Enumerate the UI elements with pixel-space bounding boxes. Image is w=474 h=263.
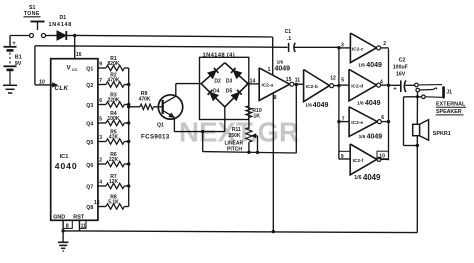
- resistor R2: [98, 72, 129, 87]
- svg-text:CLK: CLK: [55, 85, 69, 92]
- svg-text:Q2: Q2: [86, 83, 93, 89]
- svg-text:7: 7: [99, 78, 102, 84]
- wire battery to switch: [10, 35, 30, 37]
- wire pin8 to ground: [61, 220, 79, 242]
- svg-text:IC2-f: IC2-f: [353, 158, 364, 164]
- svg-text:3: 3: [99, 135, 102, 141]
- svg-text:4049: 4049: [367, 134, 383, 141]
- node Vcc junction: [73, 34, 76, 37]
- svg-text:SPKR1: SPKR1: [433, 131, 451, 137]
- wire jack tip to speaker: [416, 92, 418, 124]
- resistor R5: [98, 129, 129, 144]
- svg-text:.1: .1: [287, 36, 291, 42]
- svg-text:D4: D4: [213, 88, 220, 94]
- svg-text:2: 2: [99, 157, 102, 163]
- svg-text:D3: D3: [226, 79, 233, 85]
- wire resistor bus: [128, 68, 130, 207]
- svg-text:IC2-a: IC2-a: [262, 83, 274, 89]
- wire pin16 drop: [75, 36, 82, 59]
- diode D2: [201, 63, 225, 85]
- diode D4: [201, 84, 225, 107]
- IC1 4040 box: [51, 59, 98, 221]
- svg-text:4040: 4040: [55, 161, 78, 171]
- junction: [127, 162, 130, 165]
- transistor Q1: [141, 95, 183, 141]
- svg-text:+: +: [12, 41, 16, 47]
- svg-text:1/6: 1/6: [305, 102, 312, 108]
- svg-text:Q8: Q8: [86, 205, 93, 211]
- svg-text:15: 15: [286, 77, 292, 83]
- svg-text:D5: D5: [226, 88, 233, 94]
- svg-text:Q5: Q5: [86, 140, 93, 146]
- svg-text:Q6: Q6: [86, 163, 93, 169]
- svg-text:Q7: Q7: [86, 185, 93, 191]
- battery B1: [4, 36, 22, 85]
- svg-text:SPEAKER: SPEAKER: [436, 109, 462, 115]
- pin 11 box: [79, 220, 86, 229]
- ground (battery): [3, 85, 17, 93]
- wire bridge to IC2-a: [248, 78, 259, 84]
- svg-text:Q1: Q1: [157, 123, 164, 129]
- svg-text:C1: C1: [285, 29, 292, 35]
- svg-text:16V: 16V: [396, 71, 406, 77]
- svg-text:4049: 4049: [313, 102, 329, 109]
- svg-text:1/6: 1/6: [359, 134, 366, 140]
- svg-text:1K: 1K: [253, 114, 260, 120]
- resistor R6: [98, 152, 129, 167]
- svg-text:4049: 4049: [363, 173, 381, 182]
- wire pot bottom rail: [203, 151, 297, 154]
- svg-text:IC2-b: IC2-b: [306, 84, 318, 90]
- diode D3: [225, 63, 248, 85]
- svg-text:EXTERNAL: EXTERNAL: [436, 101, 466, 107]
- svg-text:IC2-c: IC2-c: [352, 46, 364, 52]
- svg-text:8: 8: [66, 223, 69, 229]
- node emitter junction: [201, 130, 204, 133]
- op-amp U6 IC2-f gate: [339, 144, 389, 182]
- wire IC2-a out: [294, 78, 304, 87]
- svg-text:1N4148: 1N4148: [49, 22, 72, 28]
- resistor R10: [246, 84, 262, 129]
- svg-text:16: 16: [76, 52, 82, 58]
- op-amp U2 IC2-b gate: [304, 70, 336, 109]
- svg-text:470K: 470K: [139, 97, 151, 103]
- resistor R4: [98, 111, 129, 126]
- junction: [127, 103, 130, 106]
- svg-text:Q1: Q1: [86, 67, 93, 73]
- svg-text:2: 2: [383, 41, 386, 47]
- svg-text:4049: 4049: [365, 100, 381, 107]
- svg-text:C2: C2: [399, 58, 406, 64]
- diode D5: [225, 84, 248, 107]
- svg-text:12: 12: [330, 75, 336, 81]
- svg-text:1N4148 (4): 1N4148 (4): [203, 52, 236, 58]
- svg-text:Q3: Q3: [86, 103, 93, 109]
- junction: [127, 83, 130, 86]
- IC1 labels: [53, 64, 93, 220]
- svg-text:1/6: 1/6: [358, 62, 365, 68]
- wire emitter to pot bottom: [202, 132, 204, 152]
- svg-text:IC1: IC1: [60, 154, 69, 160]
- wire ground rail: [80, 220, 418, 232]
- svg-text:10: 10: [379, 153, 385, 159]
- svg-text:13: 13: [94, 200, 100, 206]
- svg-text:D2: D2: [214, 79, 221, 85]
- pin 10 CLK input: [39, 79, 69, 92]
- jack J1: [415, 83, 452, 98]
- wire output bus: [387, 49, 390, 161]
- svg-text:4: 4: [380, 79, 383, 85]
- op-amp U1 IC2-a gate: [259, 60, 294, 101]
- svg-text:4049: 4049: [366, 62, 382, 69]
- wire collector: [176, 84, 201, 97]
- wire speaker down: [416, 136, 418, 233]
- pin 8 box: [63, 220, 72, 229]
- svg-text:11: 11: [295, 78, 301, 84]
- svg-text:B1: B1: [15, 54, 22, 60]
- op-amp U4 IC2-d gate: [339, 69, 389, 107]
- svg-text:10: 10: [39, 79, 45, 85]
- svg-text:14: 14: [250, 78, 256, 84]
- bridge box: [200, 57, 249, 119]
- node bridge right: [246, 82, 249, 85]
- speaker SPKR1: [413, 120, 451, 141]
- svg-text:CC: CC: [72, 67, 78, 72]
- svg-text:S1: S1: [29, 5, 35, 11]
- svg-text:250K: 250K: [229, 133, 241, 139]
- svg-text:8: 8: [274, 95, 277, 101]
- svg-text:R11: R11: [232, 127, 241, 133]
- svg-text:FCS9013: FCS9013: [141, 133, 170, 140]
- switch S1: [24, 5, 46, 38]
- wire emitter: [174, 107, 224, 132]
- svg-text:Q4: Q4: [86, 122, 93, 128]
- svg-text:6: 6: [99, 98, 102, 104]
- diode D1: [46, 15, 75, 40]
- op-amp U3 IC2-c gate: [339, 33, 389, 69]
- wire input bus: [337, 46, 340, 159]
- svg-text:IC2-d: IC2-d: [351, 83, 363, 89]
- capacitor C1: [285, 29, 339, 52]
- wire pin8 ground drop: [272, 93, 274, 231]
- resistor R7: [98, 174, 129, 189]
- wire Vcc rail: [75, 35, 273, 37]
- svg-text:J1: J1: [446, 90, 452, 96]
- svg-text:1: 1: [268, 67, 271, 73]
- wire IC2-b out: [334, 85, 339, 87]
- svg-text:D1: D1: [60, 15, 67, 21]
- op-amp U5 IC2-e gate: [339, 107, 389, 141]
- svg-text:9: 9: [99, 61, 102, 67]
- node rail junction: [272, 230, 275, 233]
- svg-text:6: 6: [381, 115, 384, 121]
- junction: [127, 121, 130, 124]
- label external speaker: [436, 101, 466, 115]
- svg-text:RST: RST: [73, 215, 84, 221]
- svg-text:1/6: 1/6: [357, 101, 364, 107]
- resistor R9: [127, 91, 163, 110]
- svg-text:IC2-e: IC2-e: [351, 120, 363, 126]
- wire feedback up: [295, 85, 297, 153]
- wire jack sleeve: [404, 95, 422, 145]
- node speaker bottom: [416, 144, 419, 147]
- resistor R3: [98, 92, 129, 107]
- wire pin1 Vcc: [272, 37, 274, 75]
- svg-text:5: 5: [99, 116, 102, 122]
- resistor R8: [94, 194, 129, 209]
- capacitor C2: [389, 58, 415, 93]
- ground (IC1): [58, 242, 68, 251]
- svg-text:1/6: 1/6: [354, 175, 361, 181]
- svg-text:11: 11: [81, 223, 87, 229]
- svg-text:4049: 4049: [275, 66, 291, 73]
- resistor R1: [98, 56, 129, 71]
- svg-text:+: +: [393, 87, 397, 93]
- label 1N4148 (4): [203, 52, 236, 58]
- svg-text:9V: 9V: [15, 61, 22, 67]
- svg-text:100uF: 100uF: [393, 64, 408, 70]
- svg-text:GND: GND: [53, 215, 65, 221]
- junction: [127, 140, 130, 143]
- svg-text:LINEAR: LINEAR: [225, 141, 244, 147]
- svg-text:5: 5: [341, 77, 344, 83]
- wire clock feedback: [35, 46, 288, 85]
- svg-text:4: 4: [99, 179, 102, 185]
- junction: [127, 184, 130, 187]
- potentiometer R11: [225, 127, 258, 153]
